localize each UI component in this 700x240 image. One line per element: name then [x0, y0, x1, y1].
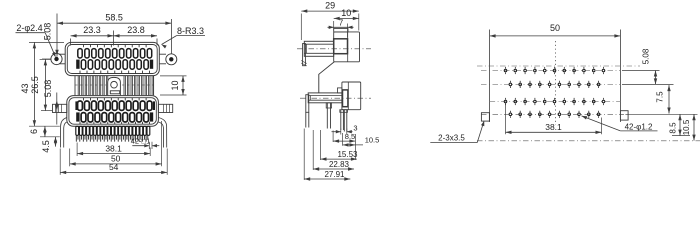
svg-text:43: 43: [20, 83, 30, 93]
top connector shell outline: [65, 42, 159, 75]
L-bracket web: [319, 62, 335, 93]
svg-text:10: 10: [341, 8, 351, 18]
solder pin comb (upper teeth): [76, 126, 79, 135]
upper ear plate: [303, 44, 306, 66]
dimension 10 body height: [160, 75, 187, 77]
center latch post with hole: [108, 77, 121, 95]
lower ear plate: [306, 95, 309, 113]
svg-text:5.08: 5.08: [642, 48, 651, 64]
row extensions right: [622, 70, 660, 72]
dimension 26.5: [44, 59, 46, 110]
svg-text:29: 29: [325, 1, 335, 11]
board edge centerline: [477, 140, 700, 142]
svg-text:42-□1: 42-□1: [131, 137, 151, 146]
svg-text:6: 6: [29, 129, 39, 134]
dimension 15.53: [320, 130, 322, 160]
dimension 4.5: [55, 137, 57, 147]
pin hole row 3: [490, 101, 621, 103]
right wing: [158, 118, 166, 148]
dimension 50: [489, 30, 491, 123]
svg-text:8.5: 8.5: [669, 122, 678, 134]
dimension 7.5: [668, 85, 670, 113]
centerline lower: [300, 97, 371, 99]
shell inner edge ticks (bottom connector): [83, 98, 85, 101]
pin hole row 4: [481, 113, 620, 115]
body top centerline: [477, 65, 640, 67]
svg-text:26.5: 26.5: [30, 76, 40, 94]
dimension 23.3: [70, 39, 72, 46]
dimension 8.5: [672, 135, 690, 137]
svg-text:50: 50: [550, 23, 560, 33]
dimension 5.08 lower left: [56, 93, 58, 125]
dimension 43: [33, 42, 35, 126]
solder pin tips (42 pins): [75, 135, 77, 141]
left wing: [61, 118, 67, 148]
ribbed body between connectors: [74, 76, 76, 96]
svg-text:23.8: 23.8: [127, 25, 145, 35]
dimension 3: [340, 129, 342, 135]
svg-text:3: 3: [353, 123, 357, 132]
lower mating face bar: [308, 93, 342, 103]
svg-text:38.1: 38.1: [105, 143, 122, 153]
front view: dual SCART connector, mating face: [16, 13, 206, 175]
dimension 8.5: [332, 131, 334, 143]
svg-text:4.5: 4.5: [41, 140, 51, 153]
dimension 38.1: [505, 103, 507, 134]
left pad 3x3.5: [481, 113, 489, 121]
right side tab: [158, 104, 172, 112]
svg-text:7: 7: [339, 19, 344, 28]
svg-text:7.5: 7.5: [656, 91, 665, 103]
dimension 27.91: [303, 129, 305, 180]
side view: right-angle profile: [297, 1, 379, 181]
dimension 29: [300, 14, 302, 41]
dimension 38.1 pin span: [76, 143, 78, 157]
svg-text:10: 10: [170, 80, 180, 90]
svg-text:54: 54: [109, 162, 119, 172]
svg-text:8-R3.3: 8-R3.3: [177, 26, 204, 36]
dimension 10: [334, 17, 359, 19]
pin hole row 1: [481, 70, 620, 72]
svg-text:10.5: 10.5: [682, 119, 691, 135]
svg-text:58.5: 58.5: [105, 13, 123, 23]
extension lines left: [29, 41, 64, 43]
svg-text:42-φ1.2: 42-φ1.2: [625, 123, 653, 132]
svg-text:10.5: 10.5: [365, 135, 380, 144]
svg-text:8.5: 8.5: [345, 132, 355, 141]
left side tab: [53, 104, 67, 112]
dimension 10.5: [342, 133, 344, 146]
pin hole row 2: [481, 83, 620, 85]
left mounting ear with φ2.4 hole: [60, 53, 66, 55]
centerline upper: [297, 48, 371, 50]
svg-text:22.83: 22.83: [329, 160, 350, 169]
svg-text:2-φ2.4: 2-φ2.4: [16, 23, 42, 33]
vertical centerline: [554, 41, 556, 125]
PCB footprint view: [430, 23, 700, 142]
dimension 54: [59, 149, 61, 175]
lower connector rear head: [342, 82, 361, 110]
svg-text:15.53: 15.53: [337, 150, 358, 159]
svg-text:2-3x3.5: 2-3x3.5: [438, 133, 465, 142]
bottom connector contact rows: [78, 101, 83, 110]
svg-text:27.91: 27.91: [324, 170, 345, 179]
upper mating face bar: [304, 41, 333, 56]
right mounting ear with φ2.4 hole: [159, 53, 166, 55]
dimension 5.08 row pitch: [655, 71, 657, 85]
svg-text:23.3: 23.3: [83, 25, 101, 35]
dimension 7: [333, 21, 335, 31]
top connector contact rows: [78, 49, 82, 58]
right pad 3x3.5: [620, 111, 628, 120]
upper connector rear head: [334, 32, 360, 62]
bottom connector shell outline: [67, 96, 159, 127]
dimension 22.83: [312, 130, 314, 170]
svg-text:38.1: 38.1: [545, 122, 562, 132]
svg-text:5.08: 5.08: [43, 80, 53, 98]
shell inner edge ticks (top connector): [83, 45, 85, 48]
dimension 58.5 overall width: [56, 14, 58, 57]
dimension 6: [44, 126, 46, 137]
dimension 23.8: [114, 34, 120, 37]
dimension 50: [69, 149, 71, 167]
pins descending to board: [305, 112, 307, 127]
dimension 10.5: [693, 114, 695, 140]
